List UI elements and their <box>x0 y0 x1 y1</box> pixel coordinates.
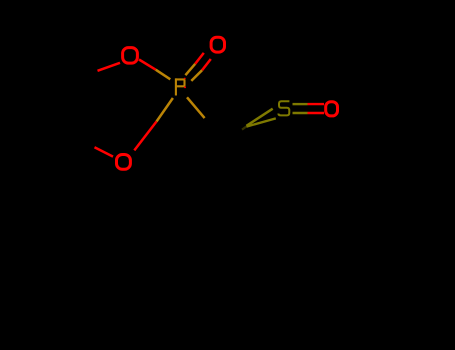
wire P=O double bond line2 red half <box>202 59 211 70</box>
atom P phosphorus letter <box>175 78 184 95</box>
node O4 sulfinyl oxygen <box>326 102 338 116</box>
wire O1-P bond red half <box>139 60 156 70</box>
wire O1-C ring bond (red half) <box>98 63 121 71</box>
wire S=O double bond lower line red half <box>308 112 325 115</box>
wire S=O double bond upper line red half <box>308 103 325 105</box>
wire S=O double bond upper line olive half <box>293 103 308 105</box>
wire P=O double bond line2 gold half <box>191 70 202 81</box>
wire C=S double bond line1 (olive half) <box>247 109 273 126</box>
wire C=S fade at carbon vertex <box>242 126 247 130</box>
node O3 ring oxygen bottom-left <box>117 155 131 170</box>
node red remnant dot top <box>184 78 186 80</box>
node red remnant dot bottom <box>184 86 186 88</box>
wire P=O double bond line1 gold half <box>185 64 195 75</box>
node O2 phosphoryl oxygen <box>211 37 224 52</box>
wire P-O3 bond gold half <box>157 98 173 122</box>
wire O1-P bond gold half <box>156 70 171 80</box>
wire O3-C ring bond (red half) <box>95 147 114 156</box>
wire P=O double bond line1 red half <box>195 53 204 64</box>
wire P-C bond gold half <box>187 97 205 118</box>
wire S=O double bond lower line olive half <box>293 112 308 115</box>
wire C=S double bond line2 (olive half) <box>247 118 276 126</box>
wire P-O3 bond red half <box>134 122 156 151</box>
node O1 ring oxygen top-left <box>123 48 138 64</box>
atom S sulfur letter <box>278 101 289 115</box>
